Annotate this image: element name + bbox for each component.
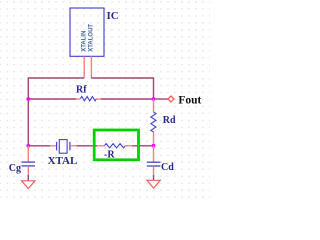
svg-text:IC: IC xyxy=(107,10,119,22)
svg-text:Cd: Cd xyxy=(161,162,174,173)
wire Rf rail left xyxy=(28,98,76,100)
junction node at Cd xyxy=(152,144,156,148)
capacitor Cg xyxy=(9,146,35,181)
svg-text:XTALIN: XTALIN xyxy=(82,31,88,52)
wire bottom rail: -R box to right node xyxy=(132,145,154,147)
resistor Rd xyxy=(151,99,176,146)
svg-text:XTALOUT: XTALOUT xyxy=(88,24,94,52)
wire bottom rail: node to XTAL xyxy=(28,145,50,147)
wire bottom rail: XTAL to -R box xyxy=(76,145,97,147)
highlight box around -R xyxy=(94,130,138,160)
wire top-right rail from XTALOUT down to Fout node xyxy=(91,78,153,99)
wire left vertical and top-left rail xyxy=(28,78,84,146)
port Fout xyxy=(168,94,201,106)
ground below Cd xyxy=(147,180,160,188)
junction node at Fout xyxy=(152,97,156,101)
ground below Cg xyxy=(22,181,35,189)
wire stub to Fout port xyxy=(154,98,169,100)
svg-text:Cg: Cg xyxy=(9,163,21,174)
wire Rf rail right xyxy=(101,98,154,100)
svg-text:Rd: Rd xyxy=(163,115,176,126)
ic IC xyxy=(70,8,119,56)
svg-text:XTAL: XTAL xyxy=(48,155,78,167)
resistor -R (negative resistance) xyxy=(97,144,132,161)
pin XTALIN of IC xyxy=(82,31,88,78)
junction node at Cg xyxy=(26,144,30,148)
crystal XTAL xyxy=(48,140,78,167)
capacitor Cd xyxy=(147,146,174,181)
pin XTALOUT of IC xyxy=(88,24,94,78)
svg-text:Fout: Fout xyxy=(178,94,201,106)
junction node at Rf left xyxy=(26,97,30,101)
svg-text:Rf: Rf xyxy=(76,85,87,96)
resistor Rf xyxy=(76,85,101,101)
